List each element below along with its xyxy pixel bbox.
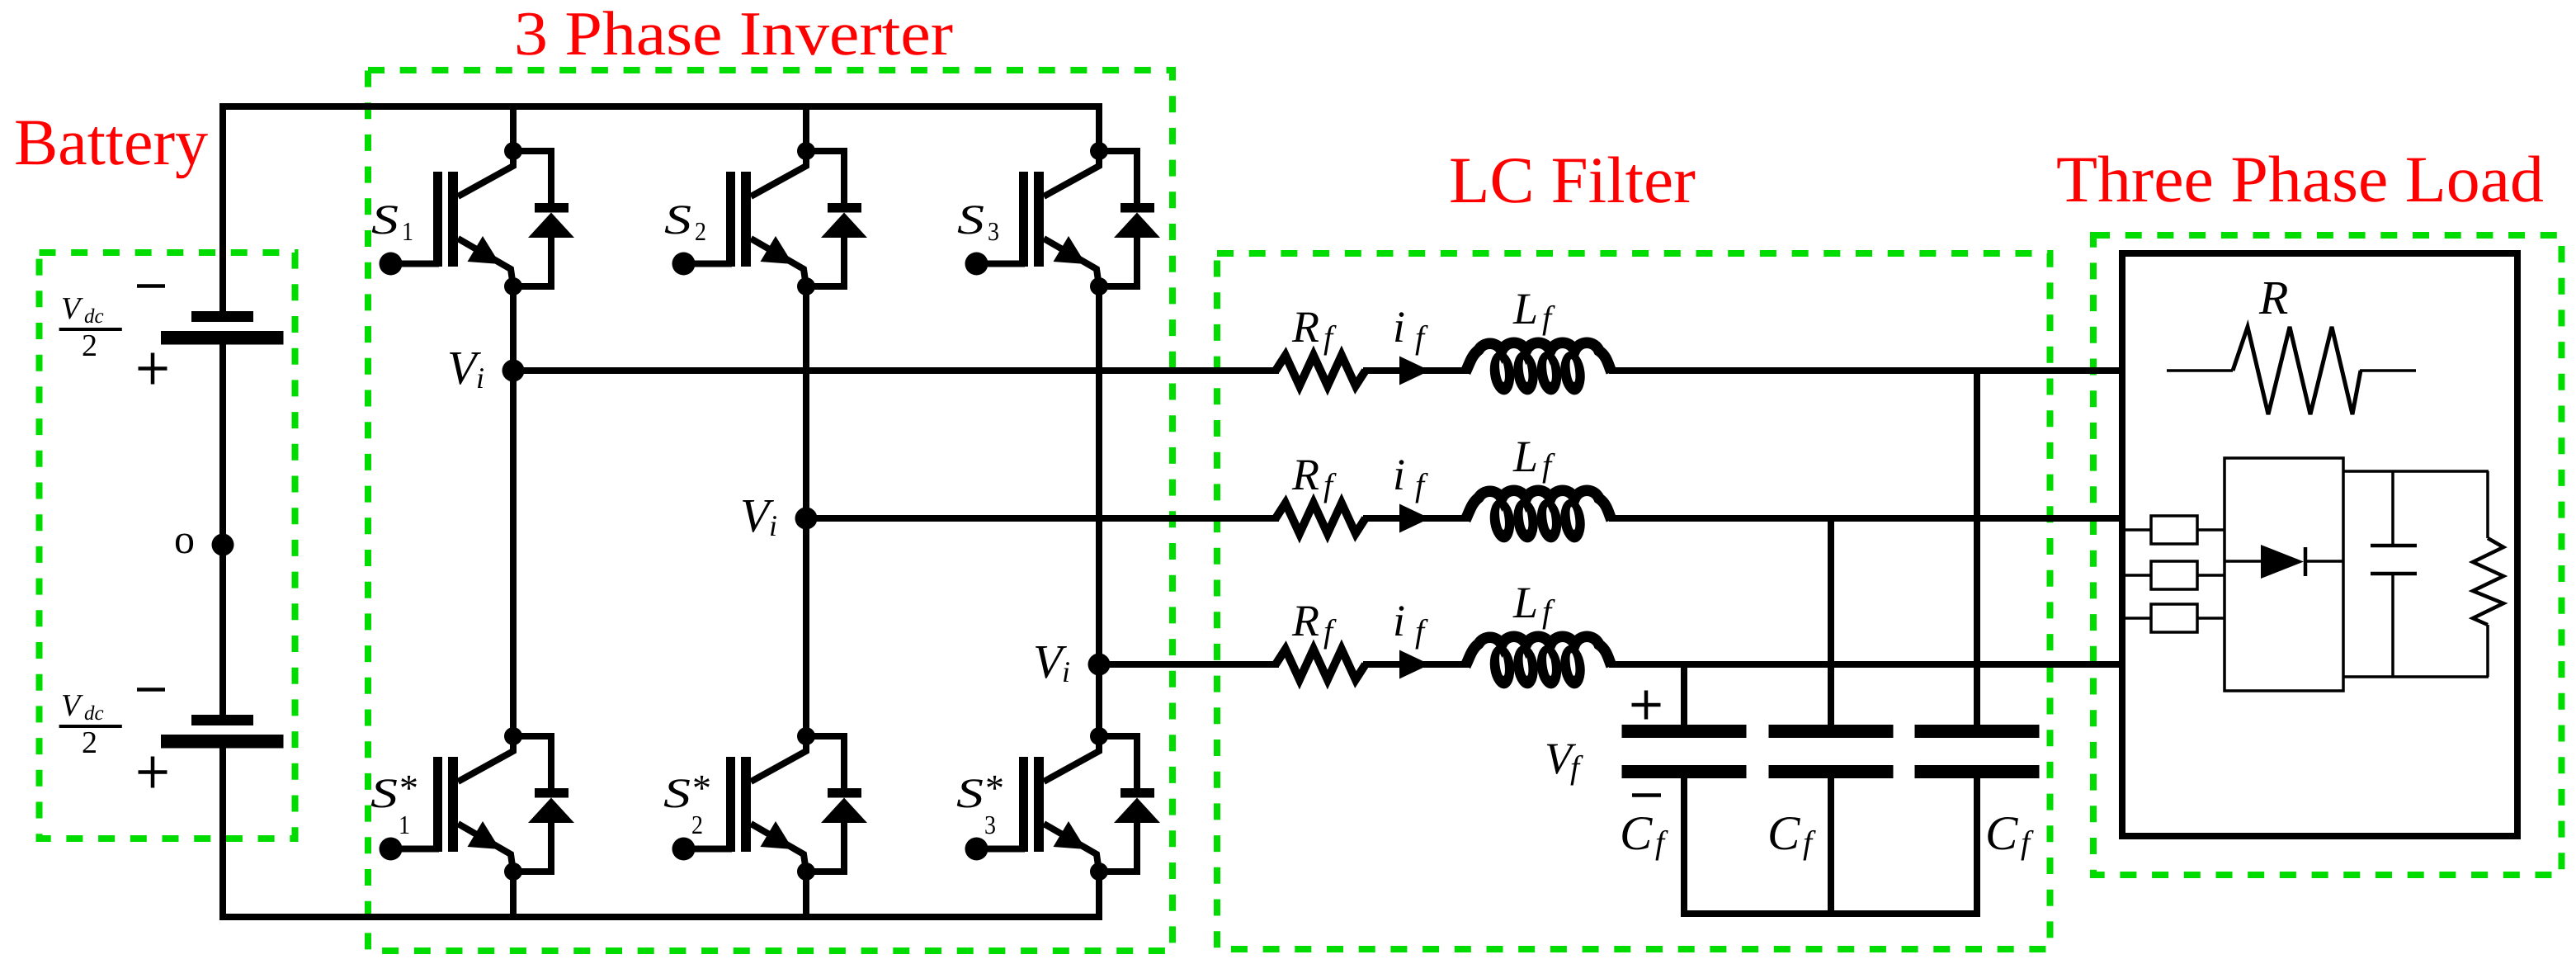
transistor S3* collector node <box>1090 727 1108 745</box>
transistor S3* IGBT symbol <box>1019 757 1028 852</box>
resistor Rf phase 1 <box>1276 356 1366 386</box>
svg-text:3: 3 <box>988 216 999 246</box>
svg-text:2: 2 <box>82 328 97 363</box>
label plus upper <box>139 366 167 371</box>
svg-text:f: f <box>1570 749 1583 786</box>
wire arrow to Lf phase 3 <box>1423 661 1469 668</box>
wire node Vi to S2* <box>803 518 809 736</box>
wire top bus to S2 <box>803 106 809 151</box>
svg-text:f: f <box>1323 612 1337 650</box>
transistor S2 collector node <box>797 142 815 160</box>
wire Cf 2 to rail <box>1828 777 1834 914</box>
wire capacitor bottom rail <box>1681 910 1980 917</box>
label plus Vf <box>1632 703 1661 707</box>
svg-text:2: 2 <box>691 810 703 839</box>
inductor Lf phase 1 <box>1488 350 1517 396</box>
capacitor Cf 1 plates <box>1622 725 1747 738</box>
transistor S1* IGBT symbol <box>433 757 442 852</box>
series resistor box 2 <box>2125 574 2151 577</box>
svg-text:1: 1 <box>402 216 413 246</box>
svg-text:dc: dc <box>84 305 104 328</box>
rectifier diode <box>2225 560 2261 563</box>
svg-text:S: S <box>371 197 399 243</box>
svg-text:C: C <box>1985 806 2018 860</box>
svg-text:Three Phase Load: Three Phase Load <box>2056 144 2544 216</box>
svg-text:S: S <box>664 197 691 243</box>
transistor S3 collector node <box>1090 142 1108 160</box>
resistor load vertical <box>2486 471 2489 538</box>
svg-text:*: * <box>985 767 1004 809</box>
svg-text:i: i <box>476 361 484 395</box>
wire S3 emitter to node Vi <box>1096 286 1102 664</box>
node Vi phase 1 <box>502 360 525 382</box>
diode antiparallel with S2 <box>806 151 844 203</box>
wire top bus to S3 <box>1096 106 1102 151</box>
svg-text:R: R <box>1291 302 1319 352</box>
label plus lower <box>139 770 167 774</box>
resistor R <box>2233 327 2361 414</box>
svg-text:*: * <box>399 767 418 809</box>
svg-text:f: f <box>1323 319 1337 356</box>
svg-text:f: f <box>1542 447 1555 484</box>
svg-text:f: f <box>1655 824 1668 861</box>
wire rectifier output top <box>2343 470 2489 473</box>
resistor R leads <box>2167 369 2233 372</box>
wire node Vi to S3* <box>1096 664 1102 736</box>
wire phase drop to Cf 3 <box>1974 371 1980 725</box>
inductor Lf phase 3 <box>1488 644 1517 690</box>
svg-text:f: f <box>1803 824 1816 861</box>
svg-text:f: f <box>2021 824 2034 861</box>
capacitor dc link <box>2391 471 2394 546</box>
arrow if phase 2 <box>1399 504 1430 533</box>
wire S3* emitter to bottom bus <box>1096 872 1102 917</box>
svg-text:i: i <box>1393 596 1405 645</box>
transistor S2* collector node <box>797 727 815 745</box>
series resistor box 1 <box>2125 528 2151 532</box>
wire battery top lead <box>219 103 226 312</box>
load outer box <box>2122 253 2517 836</box>
svg-text:L: L <box>1512 432 1538 481</box>
wire phase drop to Cf 1 <box>1681 664 1687 725</box>
label minus Vf <box>1632 793 1661 797</box>
wire Rf to arrow phase 3 <box>1363 661 1403 668</box>
svg-text:S: S <box>956 771 984 817</box>
svg-text:L: L <box>1512 578 1538 627</box>
battery section box <box>40 253 295 839</box>
svg-text:2: 2 <box>695 216 706 246</box>
svg-text:i: i <box>1062 655 1070 688</box>
svg-text:LC Filter: LC Filter <box>1449 144 1696 217</box>
wire Cf 1 to rail <box>1681 777 1687 914</box>
wire node Vi to S1* <box>510 371 517 736</box>
svg-text:*: * <box>692 767 711 809</box>
three phase load section box <box>2093 235 2562 875</box>
svg-text:i: i <box>1393 450 1405 499</box>
transistor S1* collector node <box>504 727 522 745</box>
wire Lf to load phase 3 <box>1609 661 2122 668</box>
diode antiparallel with S1* <box>513 736 551 788</box>
svg-text:2: 2 <box>82 725 97 760</box>
transistor S2* emitter node <box>797 862 815 881</box>
svg-text:i: i <box>1393 302 1405 352</box>
node Vi phase 3 <box>1088 654 1111 676</box>
svg-text:R: R <box>1291 450 1319 499</box>
diode antiparallel with S3 <box>1099 151 1137 203</box>
wire top bus to S1 <box>510 106 517 151</box>
wire S2* emitter to bottom bus <box>803 872 809 917</box>
wire rectifier output bottom <box>2343 675 2489 678</box>
transistor S2 IGBT symbol <box>726 172 735 267</box>
label minus upper <box>137 284 165 288</box>
LC filter section box <box>1217 253 2050 949</box>
transistor S1 IGBT symbol <box>433 172 442 267</box>
wire top bus <box>219 103 1102 110</box>
svg-text:dc: dc <box>84 702 104 725</box>
wire S1 emitter to node Vi <box>510 286 517 371</box>
rectifier box <box>2225 458 2343 691</box>
wire bottom bus <box>219 914 1102 920</box>
series resistor box 3 <box>2125 617 2151 620</box>
label minus lower <box>137 688 165 692</box>
wire S2 emitter to node Vi <box>803 286 809 518</box>
wire Lf to load phase 1 <box>1609 367 2122 374</box>
wire battery bottom lead <box>219 748 226 917</box>
svg-text:f: f <box>1415 319 1428 356</box>
resistor Rf phase 2 <box>1276 503 1366 534</box>
svg-text:L: L <box>1512 284 1538 333</box>
svg-text:i: i <box>769 509 777 542</box>
wire Rf to arrow phase 2 <box>1363 515 1403 522</box>
wire arrow to Lf phase 1 <box>1423 367 1469 374</box>
diode antiparallel with S2* <box>806 736 844 788</box>
transistor S1 collector node <box>504 142 522 160</box>
svg-text:f: f <box>1542 593 1555 630</box>
svg-text:V: V <box>61 291 83 326</box>
diode antiparallel with S3* <box>1099 736 1137 788</box>
svg-text:f: f <box>1542 299 1555 336</box>
svg-text:C: C <box>1620 806 1653 860</box>
inductor Lf phase 2 <box>1488 498 1517 544</box>
node Vi phase 2 <box>795 508 818 530</box>
wire arrow to Lf phase 2 <box>1423 515 1469 522</box>
transistor S3* emitter node <box>1090 862 1108 881</box>
wire phase 1 Vi to Rf <box>513 367 1279 374</box>
transistor S2 emitter node <box>797 277 815 295</box>
svg-text:R: R <box>1291 596 1319 645</box>
diode antiparallel with S1 <box>513 151 551 203</box>
transistor S1 emitter node <box>504 277 522 295</box>
wire Cf 3 to rail <box>1974 777 1980 914</box>
wire Rf to arrow phase 1 <box>1363 367 1403 374</box>
svg-text:f: f <box>1415 466 1428 503</box>
svg-text:S: S <box>370 771 398 817</box>
svg-text:Battery: Battery <box>14 106 208 179</box>
svg-text:1: 1 <box>399 810 410 839</box>
wire phase 2 Vi to Rf <box>806 515 1279 522</box>
svg-text:S: S <box>663 771 691 817</box>
capacitor Cf 2 plates <box>1769 725 1894 738</box>
svg-text:3 Phase Inverter: 3 Phase Inverter <box>514 0 953 69</box>
wire phase 3 Vi to Rf <box>1099 661 1279 668</box>
transistor S3 emitter node <box>1090 277 1108 295</box>
wire Lf to load phase 2 <box>1609 515 2122 522</box>
svg-text:V: V <box>61 688 83 723</box>
wire S1* emitter to bottom bus <box>510 872 517 917</box>
wire phase drop to Cf 2 <box>1828 518 1834 725</box>
battery Vdc/2 upper plates <box>191 311 253 322</box>
wire node o to lower battery <box>219 545 226 716</box>
transistor S1* emitter node <box>504 862 522 881</box>
svg-text:f: f <box>1415 612 1428 650</box>
svg-text:o: o <box>174 516 195 562</box>
wire upper battery to node o <box>219 344 226 545</box>
transistor S2* IGBT symbol <box>726 757 735 852</box>
capacitor Cf 3 plates <box>1915 725 2040 738</box>
arrow if phase 1 <box>1399 357 1430 385</box>
svg-text:f: f <box>1323 466 1337 503</box>
battery Vdc/2 lower plates <box>191 715 253 725</box>
transistor S3 IGBT symbol <box>1019 172 1028 267</box>
node o <box>212 534 234 556</box>
resistor Rf phase 3 <box>1276 650 1366 680</box>
svg-text:3: 3 <box>984 810 996 839</box>
svg-text:R: R <box>2258 271 2288 324</box>
svg-text:C: C <box>1767 806 1800 860</box>
3 phase inverter section box <box>368 70 1172 951</box>
svg-text:S: S <box>957 197 984 243</box>
arrow if phase 3 <box>1399 650 1430 679</box>
